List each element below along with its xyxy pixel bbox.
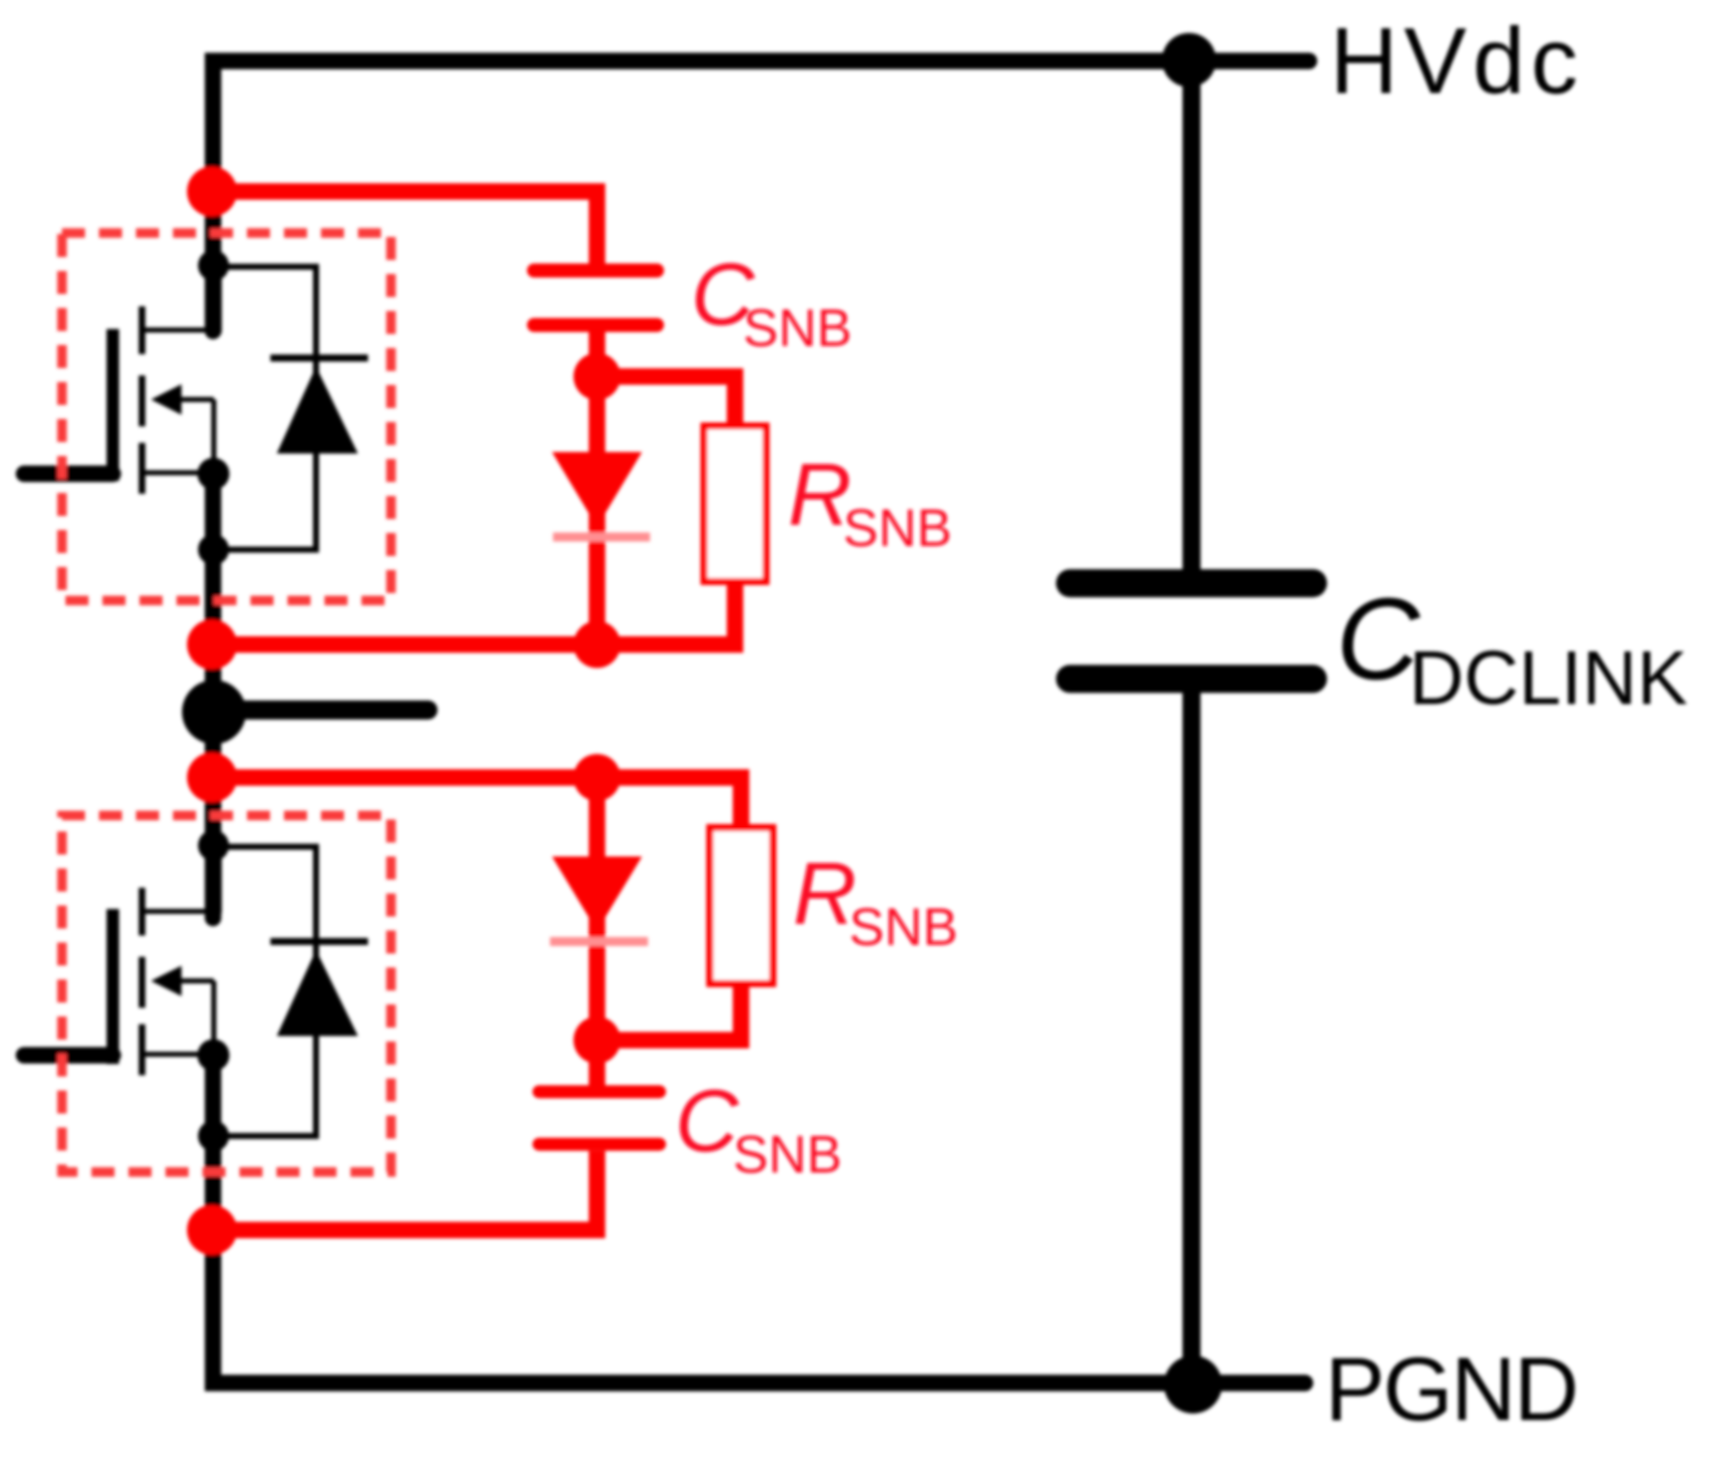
svg-text:SNB: SNB <box>849 898 958 957</box>
svg-text:SNB: SNB <box>733 1126 842 1185</box>
svg-text:R: R <box>793 844 857 943</box>
svg-text:HVdc: HVdc <box>1330 8 1584 113</box>
svg-text:C: C <box>675 1071 740 1170</box>
svg-text:SNB: SNB <box>843 499 952 558</box>
svg-text:PGND: PGND <box>1325 1340 1577 1440</box>
svg-text:DCLINK: DCLINK <box>1409 636 1688 721</box>
svg-text:SNB: SNB <box>743 299 852 358</box>
